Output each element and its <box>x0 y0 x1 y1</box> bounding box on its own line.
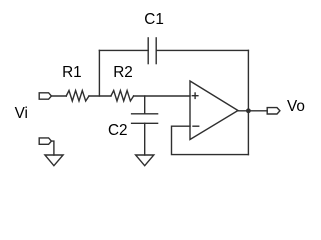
resistor R1 <box>66 91 89 102</box>
wire C2 branch down <box>144 96 146 114</box>
wire top to C1 left plate <box>99 49 148 51</box>
wire C1 right plate to top-right corner <box>156 49 248 51</box>
junction node dot <box>246 108 251 113</box>
wire input to R1 <box>51 95 66 97</box>
wire R2 to op-amp plus input <box>134 95 190 97</box>
node Vo label <box>287 99 305 114</box>
wire R1 to R2 <box>89 95 111 97</box>
resistor R2 label <box>113 65 133 80</box>
wire ground tag to ground symbol <box>51 141 54 155</box>
ground under C2 <box>136 155 154 166</box>
resistor R1 label <box>62 65 82 80</box>
wire node junction up to C1 <box>98 50 100 96</box>
wire op-amp output to port <box>238 110 267 112</box>
capacitor C2 label <box>108 123 128 138</box>
reference port connector (ground tag) <box>39 138 51 144</box>
wire right vertical from top corner down to feedback bottom <box>247 50 249 154</box>
input port connector Vi <box>39 93 51 99</box>
output port connector Vo <box>267 108 280 114</box>
capacitor C1 label <box>144 12 164 27</box>
capacitor C2 <box>132 114 158 124</box>
resistor R2 <box>111 91 134 102</box>
op-amp U1 <box>190 81 238 140</box>
ground left <box>45 155 63 166</box>
capacitor C1 <box>148 38 156 64</box>
wire C2 to ground <box>144 123 146 155</box>
wire minus input feedback <box>172 126 249 154</box>
node Vi label <box>15 106 28 121</box>
